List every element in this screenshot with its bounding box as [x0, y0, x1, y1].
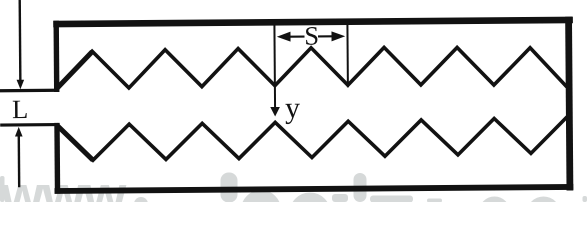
watermark dot after www	[134, 197, 148, 211]
lower zigzag corrugated wall	[56, 117, 567, 161]
left wall lower segment	[54, 123, 60, 194]
bottom wall of duct	[55, 187, 574, 191]
inlet lower lip line	[0, 123, 58, 127]
svg-text:y: y	[285, 91, 300, 124]
watermark i stem with dot	[354, 173, 367, 202]
watermark d stem	[221, 173, 238, 203]
watermark right sliver	[583, 196, 587, 202]
L dimension up-arrow stem	[18, 136, 21, 187]
top wall of duct	[53, 20, 573, 24]
watermark n tops	[370, 196, 413, 203]
upper zigzag corrugated wall	[56, 46, 567, 91]
S dimension left extension line and y arrow stem	[273, 22, 276, 108]
svg-text:L: L	[12, 94, 28, 124]
watermark o of .com	[527, 197, 561, 231]
upper zigzag first segment (thick)	[56, 52, 93, 90]
svg-text:S: S	[304, 21, 319, 51]
watermark left sliver	[0, 176, 5, 202]
L dimension down-arrow head	[17, 80, 25, 90]
y dimension arrow head	[270, 107, 280, 117]
watermark d bowl	[247, 196, 275, 224]
lower zigzag first segment (thick)	[56, 124, 93, 160]
S dimension right extension line	[346, 22, 349, 87]
left wall upper segment	[53, 21, 59, 92]
L dimension up-arrow head	[15, 127, 23, 137]
L dimension down-arrow stem	[18, 0, 21, 81]
watermark www	[0, 164, 587, 231]
S dimension right arrow stem	[318, 35, 332, 37]
watermark letter top before i	[332, 194, 348, 202]
right wall of duct	[569, 17, 570, 191]
S dimension right arrow head	[331, 31, 345, 41]
watermark small top	[427, 199, 442, 203]
watermark c of .com	[479, 197, 510, 228]
inlet upper lip line	[0, 89, 58, 93]
watermark o	[296, 199, 325, 228]
S dimension left arrow stem	[290, 35, 305, 37]
S dimension left arrow head	[277, 32, 291, 42]
